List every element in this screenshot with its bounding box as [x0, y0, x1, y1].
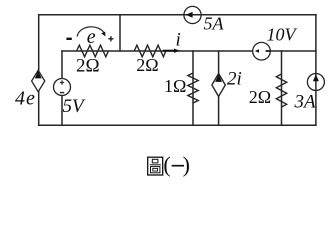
- minus sign: [66, 38, 71, 40]
- arc arrow over e: [77, 27, 104, 37]
- current arrow i: [163, 49, 180, 53]
- wire 1ohm branch: [192, 51, 194, 125]
- wire top: [39, 14, 316, 16]
- resistor R1 2ohm horizontal (with e across it): [77, 45, 109, 57]
- svg-text:(: (: [163, 152, 170, 177]
- source 5A circle on top wire: [184, 6, 201, 23]
- svg-text:e: e: [87, 26, 96, 48]
- svg-text:2i: 2i: [227, 68, 242, 89]
- wire vertical junction x=120: [119, 15, 121, 51]
- plus sign: [108, 36, 113, 41]
- resistor R2 2ohm horizontal: [134, 45, 166, 57]
- source 4e dependent diamond: [32, 70, 45, 91]
- svg-text:10V: 10V: [267, 25, 298, 45]
- svg-text:2Ω: 2Ω: [136, 55, 158, 75]
- svg-text:5A: 5A: [204, 14, 225, 34]
- wire right: [315, 15, 317, 126]
- svg-text:4e: 4e: [15, 87, 36, 109]
- svg-text:): ): [183, 152, 190, 177]
- wire middle horizontal: [62, 50, 316, 52]
- wire left: [38, 15, 40, 126]
- source 10V circle on middle wire: [253, 42, 271, 60]
- source 2i dependent diamond: [212, 74, 225, 97]
- svg-text:2Ω: 2Ω: [76, 56, 100, 77]
- wire 2i branch: [218, 51, 220, 125]
- wire 2ohm-vertical branch: [281, 51, 283, 125]
- source 5V circle: [54, 79, 71, 96]
- wire bottom: [39, 124, 316, 126]
- resistor 2ohm vertical: [276, 74, 286, 107]
- svg-text:i: i: [176, 30, 181, 51]
- wire 5V branch: [61, 51, 63, 125]
- svg-text:5V: 5V: [63, 96, 87, 117]
- source 3A circle on right wire: [307, 74, 324, 91]
- resistor 1ohm vertical: [188, 73, 198, 103]
- voltage label e with polarity and arc: [66, 26, 113, 48]
- svg-text:3A: 3A: [294, 91, 317, 112]
- svg-text:2Ω: 2Ω: [249, 87, 271, 107]
- caption (one): [163, 152, 190, 177]
- caption glyph tu (figure): [148, 157, 163, 175]
- svg-text:1Ω: 1Ω: [164, 76, 186, 96]
